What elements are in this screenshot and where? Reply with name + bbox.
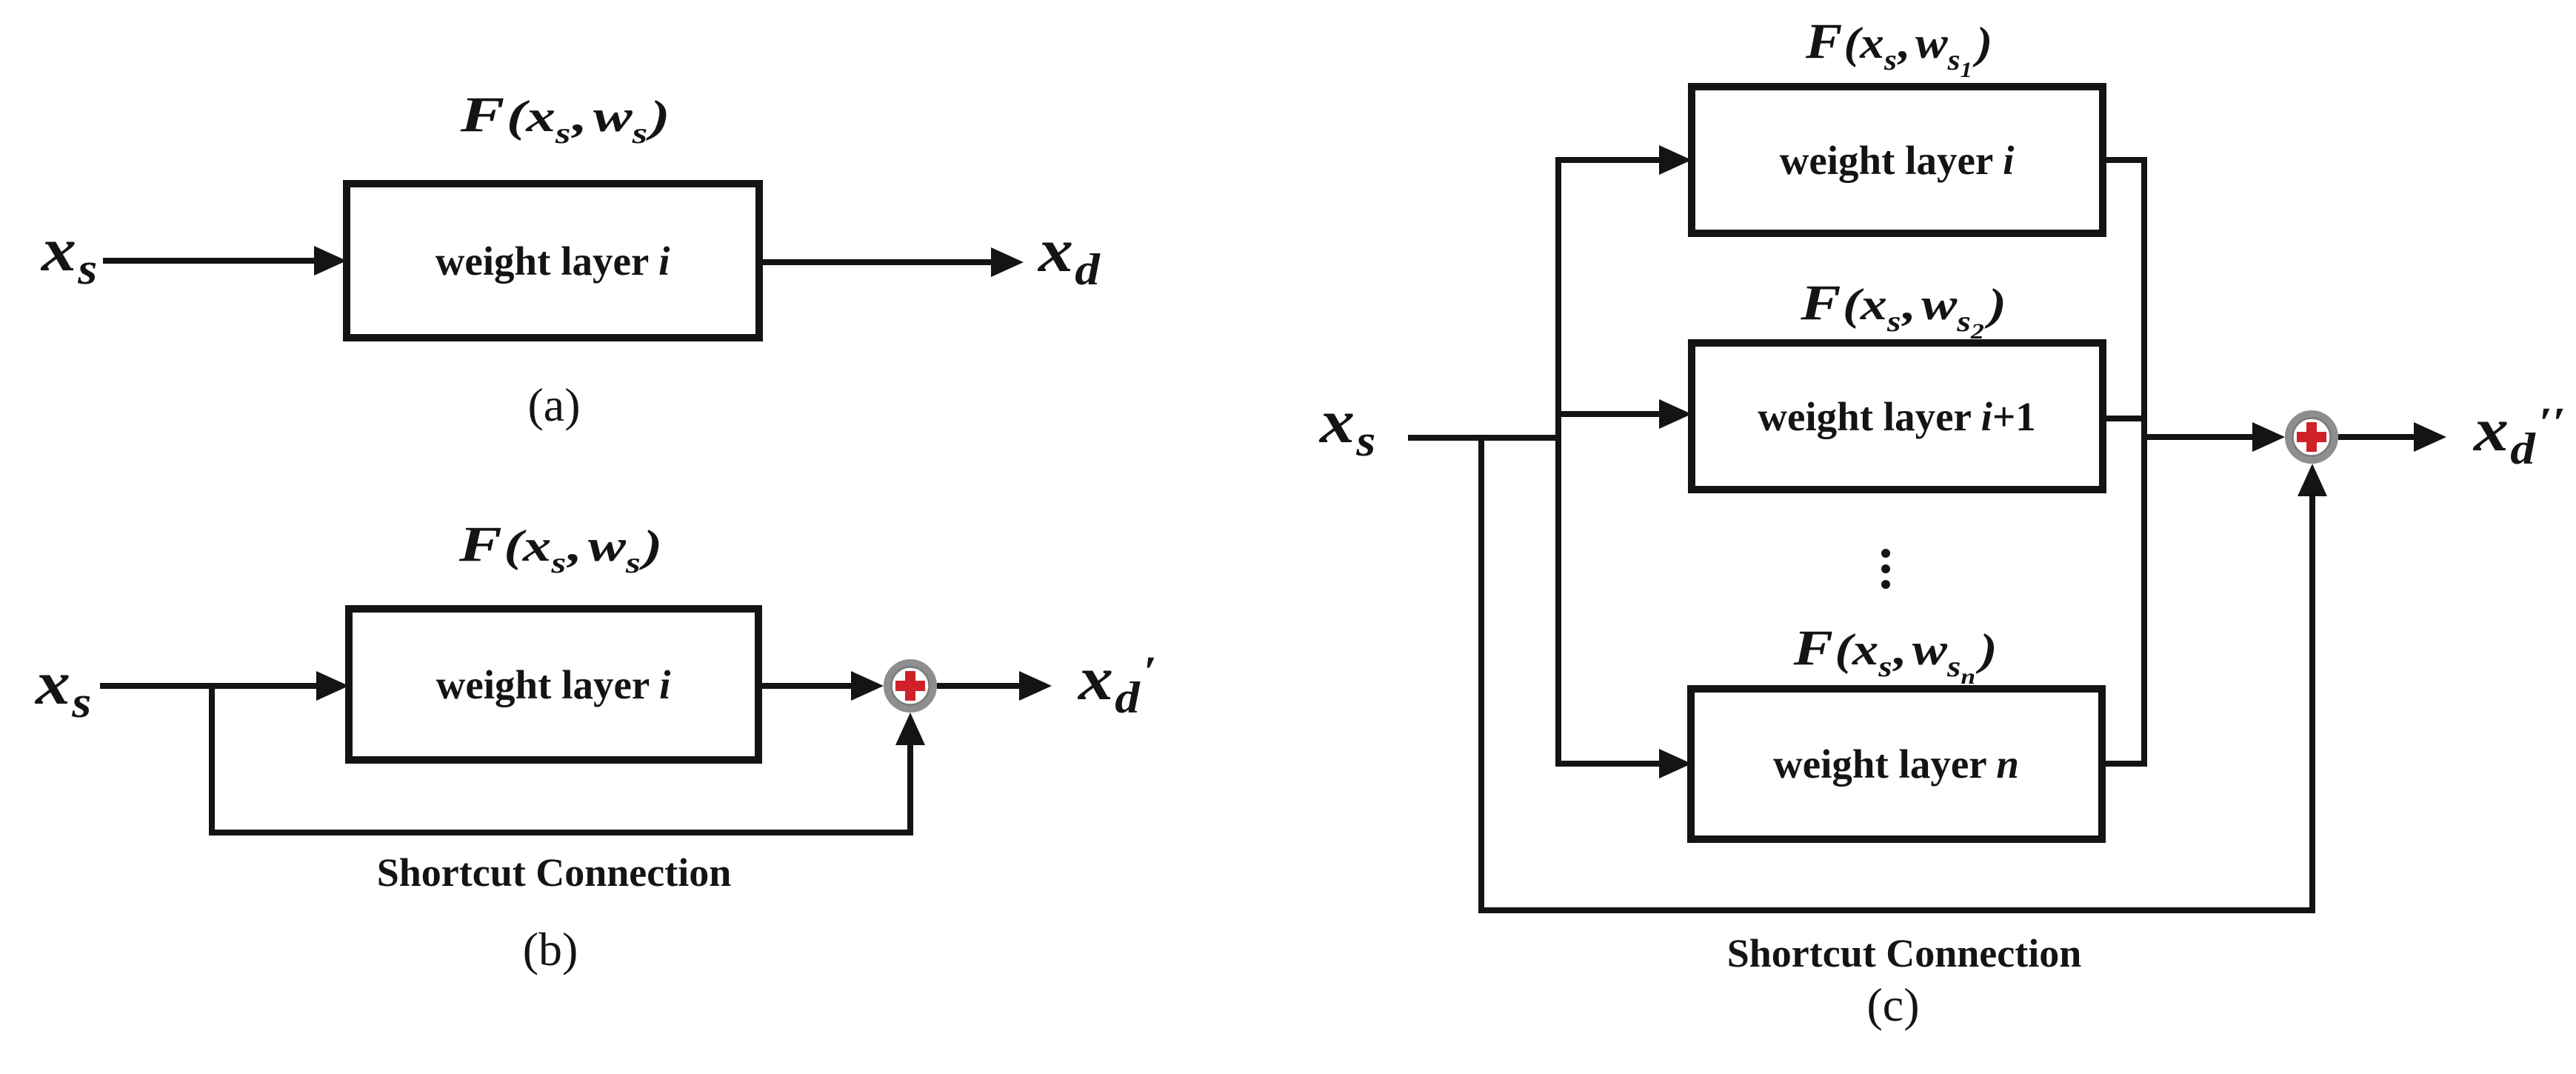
output node x_d' (b) (1077, 645, 1157, 723)
svg-text:weight layer i: weight layer i (1780, 138, 2015, 183)
svg-text:F(xs,ws1): F(xs,ws1) (1805, 14, 1992, 82)
wire bus -> weight layer i+1 (c) (1558, 411, 1665, 417)
label F(xs,ws) for diagram (b) (458, 516, 663, 579)
output wire weight layer i+1 -> right bus (c) (2103, 416, 2147, 421)
svg-text:Shortcut Connection: Shortcut Connection (377, 850, 732, 895)
adder (+) (b) (887, 663, 933, 709)
input node x_s (c) (1318, 388, 1376, 466)
label F(xs,ws1) for weight layer i (c) (1805, 14, 1992, 82)
input node x_s (b) (34, 650, 92, 727)
output wire weight layer n -> right bus (c) (2102, 761, 2147, 767)
svg-text:weight layer n: weight layer n (1773, 741, 2019, 787)
svg-text:xd′′: xd′′ (2472, 396, 2566, 474)
adder (+) (c) (2289, 414, 2335, 460)
svg-text:weight layer i+1: weight layer i+1 (1758, 394, 2036, 439)
svg-text:(b): (b) (523, 923, 578, 975)
shortcut wire: branch down from input (b) (209, 686, 215, 835)
wire adder -> x_d'' (c) (2338, 434, 2420, 440)
svg-text:xd′: xd′ (1077, 645, 1157, 723)
left fan-out bus (c) (1555, 157, 1561, 767)
svg-text:F(xs,ws): F(xs,ws) (458, 516, 663, 579)
svg-text:weight layer i: weight layer i (436, 662, 671, 707)
label F(xs,ws2) for weight layer i+1 (c) (1800, 275, 2006, 344)
block: weight layer i (b) (349, 609, 758, 760)
label F(xs,ws) for diagram (a) (459, 87, 670, 150)
output wire weight layer i -> adder (b) (758, 683, 857, 689)
svg-text:F(xs,ws2): F(xs,ws2) (1800, 275, 2006, 344)
shortcut wire: bottom horizontal (b) (209, 830, 913, 835)
svg-text:(c): (c) (1866, 978, 1919, 1031)
input wire from x_s to fan-out bus (c) (1408, 435, 1558, 441)
shortcut wire: branch down (c) (1478, 438, 1484, 913)
output wire weight layer i -> right bus (c) (2103, 157, 2147, 163)
block: weight layer n (c) (1691, 689, 2102, 839)
shortcut wire: bottom horizontal (c) (1478, 907, 2315, 913)
right merge bus (c) (2141, 157, 2147, 767)
svg-text:Shortcut Connection: Shortcut Connection (1727, 931, 2082, 975)
output wire weight layer i -> x_d (a) (759, 259, 997, 265)
svg-text:(a): (a) (527, 378, 580, 431)
wire adder -> x_d' (b) (937, 683, 1025, 689)
block: weight layer i (c) (1692, 87, 2103, 233)
input node x_s (a) (40, 216, 98, 294)
svg-text:F(xs,wsn): F(xs,wsn) (1792, 621, 1997, 690)
vertical ellipsis between blocks (c) (1881, 549, 1890, 589)
svg-text:weight layer i: weight layer i (436, 239, 670, 284)
input wire x_s -> weight layer i (a) (103, 258, 320, 264)
wire right bus -> adder (c) (2144, 434, 2258, 440)
svg-text:xs: xs (1318, 388, 1376, 466)
block: weight layer i+1 (c) (1692, 343, 2103, 490)
label F(xs,wsn) for weight layer n (c) (1792, 621, 1997, 690)
svg-text:F(xs,ws): F(xs,ws) (459, 87, 670, 150)
shortcut wire: up into adder (c) (2309, 490, 2315, 910)
wire bus -> weight layer n (c) (1558, 761, 1665, 767)
svg-text:xs: xs (34, 650, 92, 727)
output node x_d'' (c) (2472, 396, 2566, 474)
shortcut wire: up into adder (b) (907, 739, 913, 833)
svg-text:xs: xs (40, 216, 98, 294)
output node x_d (a) (1037, 217, 1101, 295)
input wire x_s -> weight layer i (b) (100, 683, 322, 689)
block: weight layer i (a) (347, 184, 759, 338)
svg-text:xd: xd (1037, 217, 1101, 295)
wire bus -> weight layer i (c) (1558, 157, 1665, 163)
